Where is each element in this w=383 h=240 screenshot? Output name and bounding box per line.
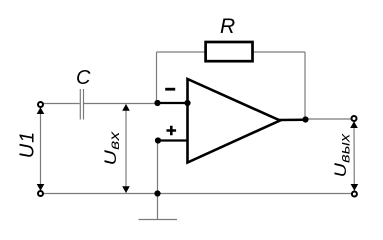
- wire feedback top-right horizontal: [254, 51, 306, 53]
- wire capacitor to inverting node: [84, 103, 158, 105]
- node: inverting input junction: [154, 100, 160, 106]
- wire Uvx arrow line: [125, 105, 127, 193]
- wire feedback top-left horizontal: [157, 51, 205, 53]
- ground bar: [139, 219, 178, 221]
- svg-text:R: R: [220, 15, 235, 38]
- node: non-inverting input junction: [155, 137, 161, 143]
- wire non-inverting node to ground stem: [157, 141, 159, 220]
- svg-text:C: C: [76, 67, 91, 89]
- capacitor C1 right plate: [83, 89, 85, 120]
- arrowhead U1 down: [37, 184, 45, 191]
- op-amp minus sign: [165, 88, 175, 91]
- capacitor C1 left plate: [79, 89, 81, 120]
- op-amp U1 triangle: [188, 79, 281, 163]
- wire output to terminal: [306, 118, 352, 120]
- wire top input segment (terminal to capacitor): [44, 103, 80, 105]
- node: inverting input at op-amp: [184, 100, 190, 106]
- arrowhead Uvx up: [122, 104, 130, 111]
- wire op-amp output (thick): [279, 118, 306, 121]
- svg-text:Uвых: Uвых: [330, 132, 353, 177]
- wire feedback right vertical: [304, 52, 306, 120]
- arrowhead U1 up: [37, 107, 45, 114]
- terminal top-left: [38, 102, 43, 107]
- terminal bottom-right: [352, 192, 357, 197]
- op-amp plus sign: [167, 126, 177, 136]
- resistor R body: [206, 42, 253, 61]
- wire feedback left vertical: [156, 52, 158, 103]
- arrowhead Uvyx up: [350, 121, 358, 128]
- arrowhead Uvyx down: [351, 184, 359, 191]
- wire bottom rail: [44, 193, 352, 195]
- terminal top-right: [352, 116, 357, 121]
- terminal bottom-left: [38, 191, 43, 196]
- svg-text:U1: U1: [17, 131, 39, 159]
- wire right terminals vertical (Uvyx arrow line): [353, 122, 355, 191]
- wire inverting input (thick): [158, 102, 187, 104]
- arrowhead Uvx down: [122, 186, 130, 193]
- wire non-inverting input (thick): [158, 139, 187, 141]
- node: bottom rail / ground junction: [154, 190, 160, 196]
- node: output junction: [302, 116, 308, 122]
- wire left terminals vertical (U1 arrow line): [40, 108, 42, 190]
- svg-text:Uвх: Uвх: [102, 131, 122, 166]
